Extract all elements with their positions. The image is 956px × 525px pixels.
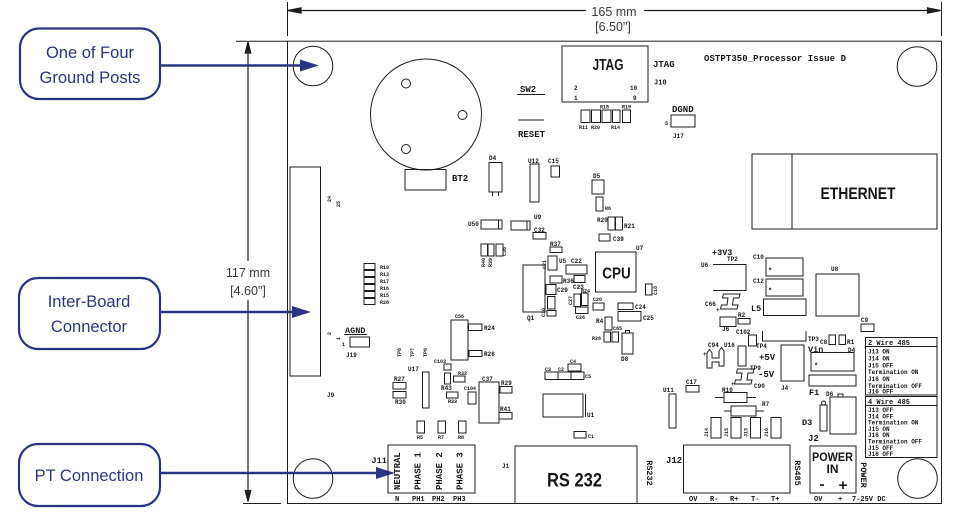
svg-text:SW2: SW2 [520,85,536,95]
svg-text:C10: C10 [753,254,764,261]
svg-text:DGND: DGND [672,105,694,115]
svg-text:[4.60"]: [4.60"] [230,284,266,298]
svg-text:JTAG: JTAG [653,60,675,70]
svg-text:R21: R21 [624,223,635,230]
svg-text:J4: J4 [781,385,789,392]
svg-text:RESET: RESET [518,130,546,140]
svg-text:J6: J6 [722,326,730,333]
resistor R26 [612,332,619,342]
svg-text:U1: U1 [587,412,595,419]
svg-text:U17: U17 [408,366,419,373]
svg-text:C24: C24 [635,304,646,311]
svg-text:PT Connection: PT Connection [35,467,144,485]
svg-text:J1: J1 [502,463,510,470]
dimension 117mm line [236,41,288,503]
resistor R33 [447,392,459,398]
svg-text:J16 OFF: J16 OFF [868,389,894,396]
ethernet connector [752,154,937,229]
resistor R6 [596,197,603,211]
svg-text:N: N [395,496,399,504]
svg-text:OSTPT350_Processor Issue D: OSTPT350_Processor Issue D [704,54,847,64]
svg-text:R41: R41 [500,406,511,413]
svg-text:T+: T+ [771,496,779,504]
svg-text:C36: C36 [502,247,508,256]
svg-text:R4: R4 [596,318,604,325]
svg-text:-5V: -5V [758,370,775,380]
capacitor C25 [618,312,641,322]
svg-text:R40: R40 [481,258,487,267]
svg-text:RS232: RS232 [644,460,654,486]
svg-text:[6.50"]: [6.50"] [595,20,631,34]
svg-text:R14: R14 [611,125,620,131]
svg-text:+: + [838,496,842,504]
diode D8 [622,333,633,354]
connector J17 [671,115,695,127]
svg-text:TP4: TP4 [756,343,767,350]
svg-text:R5: R5 [417,435,423,441]
svg-text:R24: R24 [581,289,590,295]
svg-text:5: 5 [665,121,668,127]
svg-text:C20: C20 [593,297,602,303]
svg-text:7-25V DC: 7-25V DC [852,496,886,504]
svg-text:J12: J12 [666,456,682,466]
svg-text:C90: C90 [754,383,765,390]
svg-text:U50: U50 [468,221,479,228]
svg-text:Inter-Board: Inter-Board [48,293,131,311]
SECTION: rightparts [703,329,856,438]
SECTION: dimensions [226,2,942,504]
svg-text:R2: R2 [738,312,746,319]
svg-text:PH1: PH1 [412,496,425,504]
resistor R20 [592,110,601,123]
resistor R36 [550,276,562,283]
svg-text:U5: U5 [559,258,567,265]
resistor R24 [469,324,483,331]
svg-text:Ground Posts: Ground Posts [40,69,141,87]
resistor R43 [445,373,451,384]
SECTION: board outline [288,41,942,503]
svg-text:C9: C9 [861,317,869,324]
callout box PT Connection [19,444,160,506]
svg-text:R29: R29 [501,380,512,387]
SECTION: ethernet [701,154,937,333]
resistor R28b [469,351,482,357]
ground post bottom-left [293,459,333,499]
svg-text:TP3: TP3 [808,336,819,343]
dimension 165mm line [288,2,942,36]
svg-text:165 mm: 165 mm [591,5,636,19]
svg-text:R20: R20 [597,217,608,224]
svg-text:D8: D8 [621,356,629,363]
svg-text:R33: R33 [448,399,457,405]
capacitor C90 [735,369,755,384]
capacitor C39 [599,234,610,241]
svg-text:J15: J15 [724,428,730,437]
ic U1 [543,394,583,417]
resistor R40 [481,244,488,256]
resistor R7 [724,410,764,412]
svg-text:1: 1 [574,95,578,102]
svg-text:PH2: PH2 [432,496,445,504]
arrow to inter-board connector [160,311,295,313]
svg-text:TP7: TP7 [410,348,416,357]
jumper J15 [731,418,741,439]
svg-text:J11: J11 [372,456,387,466]
svg-text:25: 25 [336,201,342,207]
svg-text:R8: R8 [458,435,464,441]
SECTION: topmid [371,46,696,196]
svg-text:R11: R11 [579,125,588,131]
svg-text:C27: C27 [568,296,574,305]
svg-text:F1: F1 [809,388,819,398]
svg-text:R13: R13 [380,272,389,278]
svg-text:*: * [814,363,818,371]
resistor R18 [602,110,611,123]
jumper J13 [751,418,761,439]
resistor R19 [623,110,631,123]
svg-text:24: 24 [327,196,333,202]
ground post top-left [293,46,333,86]
svg-text:PHASE 2: PHASE 2 [435,452,445,490]
svg-text:C25: C25 [643,315,654,322]
svg-text:R+: R+ [730,496,738,504]
header JTAG [562,46,648,102]
connector J19 [350,337,370,347]
capacitor C30 [547,311,556,317]
connector J4 [781,345,804,381]
svg-text:2: 2 [327,332,333,335]
capacitor C1 [574,432,586,439]
svg-text:J9: J9 [327,392,335,399]
svg-text:1: 1 [336,337,342,340]
svg-text:PHASE 3: PHASE 3 [456,452,466,490]
svg-text:2 Wire 485: 2 Wire 485 [868,340,910,348]
svg-text:J16 OFF: J16 OFF [868,451,894,458]
svg-text:T-: T- [751,496,759,504]
svg-text:R24: R24 [484,325,495,332]
svg-text:U6: U6 [701,262,709,269]
svg-text:+: + [703,351,707,358]
svg-text:R19: R19 [622,105,631,111]
resistor R7b [438,421,446,433]
resistor R14 [613,110,621,123]
svg-text:CPU: CPU [602,266,631,283]
svg-text:Vin: Vin [808,345,823,355]
svg-text:ETHERNET: ETHERNET [821,185,896,203]
capacitor C33 [548,297,556,310]
svg-text:4 Wire 485: 4 Wire 485 [868,399,910,407]
connector J6 [720,317,736,327]
svg-text:C94: C94 [708,342,719,349]
svg-text:TP2: TP2 [727,256,738,263]
svg-text:J2: J2 [808,434,819,444]
svg-text:-: - [820,476,825,493]
svg-text:R-: R- [710,496,718,504]
resistor R39 [488,244,494,256]
svg-text:J13: J13 [744,428,750,437]
svg-text:One of Four: One of Four [46,44,135,62]
board outline [288,41,942,503]
svg-text:L5: L5 [751,304,761,314]
capacitor C29 [546,285,556,295]
svg-text:R20: R20 [591,125,600,131]
svg-text:JTAG: JTAG [593,57,624,74]
ground post top-right [897,47,937,87]
svg-text:R1: R1 [847,339,855,346]
svg-text:R19: R19 [380,265,389,271]
svg-text:J14: J14 [704,428,710,437]
svg-text:RS 232: RS 232 [547,471,602,492]
svg-text:R15: R15 [380,293,389,299]
svg-text:R27: R27 [394,376,405,383]
svg-text:C15: C15 [548,158,559,165]
svg-text:J16: J16 [764,428,770,437]
svg-text:R16: R16 [380,286,389,292]
svg-text:BT2: BT2 [452,174,468,184]
svg-text:+5V: +5V [759,353,776,363]
svg-text:C22: C22 [571,258,582,265]
resistor stack R19 R13 R17 R16 R15 R28 [364,264,375,270]
svg-text:R6: R6 [605,206,611,212]
svg-text:1: 1 [342,342,345,348]
svg-text:R7: R7 [438,435,444,441]
svg-text:9: 9 [633,95,637,102]
svg-text:R17: R17 [380,279,389,285]
svg-text:C65: C65 [613,326,622,332]
arrow to PT connector J11 [160,472,379,474]
svg-text:C39: C39 [613,236,624,243]
svg-text:U7: U7 [636,245,644,252]
svg-text:D5: D5 [593,173,601,180]
SECTION: midparts [468,158,699,440]
svg-text:TP8: TP8 [397,348,403,357]
svg-text:C56: C56 [455,314,464,320]
svg-text:IN: IN [827,462,839,476]
svg-text:R18: R18 [600,105,609,111]
svg-text:C1: C1 [588,434,594,440]
svg-text:C66: C66 [705,301,716,308]
SECTION: bottomparts [372,434,886,504]
svg-text:10: 10 [630,85,638,92]
svg-text:POWER: POWER [858,462,868,488]
svg-text:R43: R43 [441,385,452,392]
svg-text:OV: OV [689,496,698,504]
svg-text:U16: U16 [724,342,735,349]
transistor Q1 [523,265,545,312]
svg-text:R28: R28 [380,300,389,306]
callout box One of Four Ground Posts [20,29,160,100]
svg-text:NEUTRAL: NEUTRAL [393,452,403,490]
wire TP4 to J4 [763,331,807,341]
svg-text:R39: R39 [488,258,494,267]
resistor R8 [459,421,467,433]
svg-text:117 mm: 117 mm [226,266,270,280]
svg-text:U11: U11 [663,387,674,394]
svg-text:C26: C26 [576,315,585,321]
svg-text:C18: C18 [653,286,659,295]
note box 2 wire 485 [866,338,938,396]
capacitor C26 [576,307,589,314]
inter-board connector J9 [290,167,321,376]
svg-text:U9: U9 [534,214,542,221]
battery BT2 [371,59,482,170]
svg-text:OV: OV [814,496,823,504]
SECTION: callouts [19,29,395,507]
svg-text:J10: J10 [654,80,667,88]
svg-text:J17: J17 [673,133,684,140]
svg-text:R28: R28 [484,351,495,358]
capacitor C36 [496,244,503,256]
svg-text:Connector: Connector [51,318,128,336]
note box 4 wire 485 [866,397,938,458]
svg-text:2: 2 [574,85,578,92]
svg-text:C30: C30 [541,308,547,317]
jumper J16 [771,418,781,439]
svg-text:*: * [768,268,772,276]
resistor R30 [393,392,406,399]
arrow to ground post [161,64,303,66]
svg-text:D4: D4 [489,155,497,162]
svg-text:R7: R7 [762,401,770,408]
svg-text:C29: C29 [557,287,568,294]
SECTION: wireboxes [866,338,938,459]
jumper J14 [711,418,721,439]
svg-text:+: + [839,477,848,494]
ground post bottom-right [898,459,938,499]
capacitor C23 [574,276,585,283]
ic U5 [548,256,557,270]
fuse F1 [809,375,856,386]
svg-text:RS485: RS485 [792,460,802,486]
svg-text:C104: C104 [464,386,476,392]
svg-text:U8: U8 [831,266,839,273]
svg-text:R36: R36 [563,278,574,285]
resistor R1 [839,335,846,345]
resistor R11 [581,110,590,123]
capacitor C18 [646,284,653,295]
svg-text:J19: J19 [346,352,357,359]
capacitor C24 [618,303,633,310]
svg-text:C5: C5 [585,374,591,380]
svg-text:Q1: Q1 [527,315,535,322]
capacitor C27 [574,294,581,307]
svg-text:R26: R26 [592,336,601,342]
svg-text:PHASE 1: PHASE 1 [414,452,424,490]
svg-text:R30: R30 [395,399,406,406]
callout box Inter-Board Connector [19,278,160,349]
svg-text:+: + [716,307,720,314]
resistor R5 [417,421,425,433]
svg-text:D3: D3 [802,418,812,428]
svg-text:C17: C17 [686,379,697,386]
svg-text:C12: C12 [753,278,764,285]
SECTION: leftparts [290,167,512,441]
svg-text:TP6: TP6 [423,348,429,357]
svg-text:PH3: PH3 [453,496,466,504]
svg-text:*: * [768,288,772,296]
